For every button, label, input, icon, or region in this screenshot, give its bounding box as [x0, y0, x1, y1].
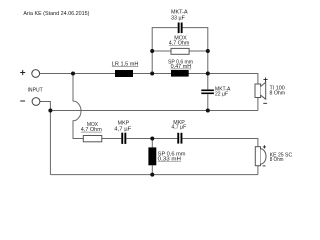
wire: C2 22uF branch lower lead — [207, 94, 209, 110]
wire: KE25 - lead — [257, 166, 259, 175]
inductor L2 SP 0,6 mm 0,47 mH — [171, 70, 189, 77]
minus sign at input — [20, 100, 25, 102]
svg-text:33 µF: 33 µF — [171, 15, 185, 21]
capacitor C1 MKT-A 33 uF — [178, 23, 180, 34]
wire: bottom branch left segment — [73, 138, 121, 140]
svg-text:Aria KE (Stand 24.06.2015): Aria KE (Stand 24.06.2015) — [23, 11, 89, 17]
terminal: - input — [32, 98, 40, 106]
node: main line / top group left — [150, 72, 154, 76]
wire: bottom branch right segment to KE25 + lead — [182, 139, 258, 147]
speaker LS2 KE 25 SC 8 Ohm — [255, 147, 260, 166]
wire: + input to main line — [40, 73, 208, 75]
wire: resistor branch — [152, 50, 208, 52]
resistor R2 MOX 4,7 Ohm (bottom) — [83, 136, 102, 142]
svg-text:8 Ohm: 8 Ohm — [270, 91, 286, 97]
inductor L3 SP 0,6 mm 0,33 mH — [148, 147, 156, 165]
capacitor C3 MKP 4,7 uF (left) — [121, 133, 123, 144]
resistor R1 MOX 4,7 Ohm (top) — [171, 48, 189, 54]
node: bottom rail / L3 bottom — [150, 173, 154, 177]
node: bottom branch / L3 top — [150, 137, 154, 141]
wire: - input lead — [40, 102, 50, 175]
node: - input / return rail — [48, 109, 52, 113]
capacitor C4 MKP 4,7 uF (right) — [177, 133, 179, 144]
wire: L3 upper lead — [151, 139, 153, 148]
wire: bottom rail — [50, 174, 258, 176]
svg-text:22 µF: 22 µF — [215, 92, 228, 98]
plus sign at input — [20, 70, 25, 75]
wire: top group left side — [152, 28, 178, 74]
svg-text:INPUT: INPUT — [28, 87, 43, 93]
node: resistor branch left — [150, 49, 154, 53]
wire: C2 22uF branch upper lead — [207, 74, 209, 90]
node: resistor branch right — [206, 49, 210, 53]
terminal: + input — [32, 70, 40, 78]
svg-text:4,7 µF: 4,7 µF — [114, 126, 131, 132]
node: main line / top group right — [206, 72, 210, 76]
svg-text:4,7 µF: 4,7 µF — [171, 125, 186, 131]
node: return rail / C2 bottom — [206, 109, 210, 113]
wire: bottom branch middle segment — [126, 138, 177, 140]
wire: top return rail — [50, 110, 258, 112]
wire: main line node to TI100 + lead — [208, 74, 258, 85]
svg-text:8 Ohm: 8 Ohm — [270, 157, 284, 163]
wire: TI100 - lead — [257, 98, 259, 111]
node: junction + line / tweeter branch — [71, 72, 75, 76]
wire: tweeter + branch vertical with hop over return rail — [73, 74, 83, 139]
capacitor C2 MKT-A 22 uF — [201, 90, 214, 92]
inductor L1 LR 1,5 mH — [115, 70, 133, 77]
speaker LS1 TI 100 8 Ohm — [255, 84, 261, 98]
wire: L3 lower lead — [151, 165, 153, 174]
wire: top group right side — [183, 28, 208, 74]
